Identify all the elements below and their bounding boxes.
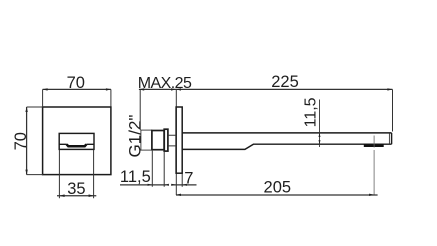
dimension 7: extension line below plate front (181, 174, 183, 187)
dimension MAX.25: extension line at pipe back (139, 89, 141, 130)
svg-text:35: 35 (67, 180, 85, 198)
svg-text:225: 225 (271, 73, 299, 91)
dimension 35: right arrow (89, 194, 94, 197)
dimension 7: dimension line with tail (171, 184, 196, 186)
svg-text:11,5: 11,5 (120, 168, 151, 186)
side view: spout tip inner chamfer line (388, 133, 390, 144)
svg-text:70: 70 (67, 74, 85, 92)
svg-text:205: 205 (264, 179, 292, 197)
side view: collar ring (bold) (164, 129, 168, 151)
dimension MAX.25: left arrow (139, 88, 144, 90)
aerator centerline (dash-dot) (373, 136, 375, 195)
dimension 11,5 bottom-left: right arrow (outside) (164, 184, 169, 186)
dimension 70 left: bottom arrow (25, 170, 27, 175)
dimension 11,5 spout height: leader line (319, 100, 321, 148)
dimension MAX.25 and 225: shared dimension line (139, 88, 393, 90)
dimension 205: dimension line (176, 194, 378, 196)
side view: spout underside near wall (182, 144, 391, 149)
svg-text:70: 70 (12, 132, 30, 150)
dimension 70 top: extension lines (43, 89, 111, 106)
side view: union body (bold) (152, 131, 164, 150)
dimension 7: right arrow (outside) (182, 184, 187, 186)
dimension 35: dimension line (57, 195, 96, 197)
svg-text:MAX.25: MAX.25 (138, 75, 192, 92)
dimension MAX.25: right arrow at wall (171, 88, 176, 90)
dimension 70 top: dimension line (43, 88, 111, 90)
dimension 225: left arrow at wall (176, 88, 181, 90)
side view: threaded pipe (thin) (141, 130, 152, 150)
dimension 70 left: top arrow (25, 107, 27, 112)
dimension 70 left: extension lines (27, 107, 43, 175)
dimension 11,5 bottom-left: extension lines (152, 151, 164, 187)
dimension 11,5 spout height: top arrow (319, 133, 321, 137)
side view: wall flange plate (7 thick) (176, 107, 182, 173)
side view: spout tip end face (391, 133, 393, 144)
front view: escutcheon square plate 70x70 (43, 107, 111, 175)
dimension 70 top: right arrow (106, 88, 111, 90)
dimension 70 top: left arrow (43, 88, 48, 90)
front view: spout body rectangle 35 wide (59, 133, 94, 149)
side view: wall plane / plate back line (175, 89, 177, 195)
dimension 7: left arrow (outside) (171, 184, 176, 186)
dimension 205: right arrow (369, 194, 374, 196)
front view: spout underside edge line (59, 143, 94, 145)
front view: aerator slot (thick dark bar) (67, 144, 87, 146)
dimension 35: left arrow (59, 194, 64, 197)
side view: pipe stub through wall (168, 135, 176, 146)
dimension 205: left arrow (176, 194, 181, 196)
dimension 11,5 bottom-left: left arrow (outside) (148, 184, 153, 186)
dimension 225: right arrow (387, 88, 392, 90)
side view: spout tube top edge (182, 132, 391, 134)
svg-text:G1/2": G1/2" (126, 115, 145, 158)
svg-text:11,5: 11,5 (303, 97, 320, 127)
svg-text:7: 7 (184, 169, 193, 187)
dimension 70 left: dimension line (26, 107, 28, 175)
side view: aerator block under tip (364, 144, 384, 147)
dimension 225: extension line at tip (392, 89, 394, 131)
dimension 11,5 bottom-left: dimension line with tails (120, 184, 167, 186)
dimension 35: extension lines (59, 150, 93, 199)
dimension 11,5 spout height: bottom arrow (319, 140, 321, 144)
